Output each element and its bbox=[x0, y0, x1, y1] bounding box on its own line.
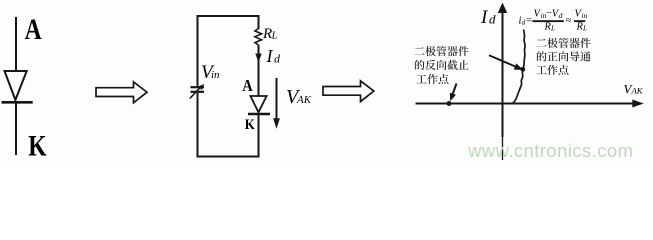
svg-text:K: K bbox=[245, 117, 255, 133]
current arrow I_d bbox=[255, 54, 261, 63]
operating point (forward conduction) dot bbox=[520, 67, 525, 72]
wire left lower bbox=[197, 93, 199, 157]
source V_in (variable source symbol) bbox=[190, 84, 204, 99]
label V_AK (axis) bbox=[624, 82, 644, 97]
wire bottom bbox=[197, 156, 260, 158]
annotation text: diode reverse cutoff operating point (3 lines) bbox=[415, 46, 469, 84]
label I_d bbox=[266, 46, 282, 66]
svg-text:K: K bbox=[28, 130, 47, 163]
wire top bbox=[197, 15, 260, 17]
wire cathode (vertical) bbox=[15, 104, 17, 156]
diode D1 triangle bbox=[5, 71, 27, 100]
annotation arrow to reverse point bbox=[450, 84, 457, 102]
svg-text:I: I bbox=[266, 46, 274, 66]
wire anode (vertical) bbox=[15, 17, 17, 71]
svg-text:=: = bbox=[526, 16, 532, 27]
wire right lower bbox=[258, 115, 260, 157]
voltage arrow V_AK bbox=[273, 78, 280, 129]
axis V_AK (horizontal) bbox=[416, 100, 644, 108]
svg-text:A: A bbox=[25, 13, 42, 46]
resistor R_L (zigzag) bbox=[255, 29, 262, 46]
wire right middle (with current) bbox=[258, 45, 260, 96]
label I_d (axis) bbox=[480, 7, 496, 28]
svg-text:d: d bbox=[274, 52, 281, 66]
svg-text:A: A bbox=[242, 76, 253, 95]
svg-text:d: d bbox=[522, 18, 526, 27]
diode I-V curve bbox=[513, 30, 525, 104]
svg-text:R: R bbox=[262, 26, 272, 42]
svg-text:L: L bbox=[582, 24, 587, 33]
wire right upper bbox=[258, 16, 260, 29]
annotation arrow to forward point bbox=[489, 55, 523, 70]
axis I_d (vertical) bbox=[498, 3, 507, 161]
svg-text:in: in bbox=[582, 11, 588, 20]
operating point (reverse cutoff) dot bbox=[447, 101, 452, 106]
svg-text:d: d bbox=[489, 12, 496, 27]
svg-text:≈: ≈ bbox=[566, 16, 572, 27]
svg-text:in: in bbox=[211, 69, 220, 81]
diode D2 triangle bbox=[250, 96, 266, 112]
svg-text:AK: AK bbox=[296, 94, 312, 106]
svg-text:L: L bbox=[550, 24, 555, 33]
label V_in bbox=[201, 62, 220, 83]
diode D2 cathode bar bbox=[248, 113, 270, 116]
annotation text: diode forward conduction operating point (3 lines) bbox=[536, 38, 590, 75]
wire left upper bbox=[197, 16, 199, 86]
svg-text:d: d bbox=[559, 11, 563, 20]
formula i_d = (V_in - V_d)/R_L approx V_in/R_L bbox=[519, 8, 588, 32]
svg-text:L: L bbox=[271, 30, 278, 41]
flow arrow 2 (block arrow) bbox=[323, 81, 374, 102]
svg-text:www.cntronics.com: www.cntronics.com bbox=[467, 140, 633, 161]
label R_L bbox=[262, 26, 278, 42]
svg-text:AK: AK bbox=[631, 86, 644, 96]
diode D1 cathode bar bbox=[2, 101, 33, 104]
label V_AK bbox=[286, 86, 312, 108]
flow arrow 1 (block arrow) bbox=[96, 82, 147, 103]
